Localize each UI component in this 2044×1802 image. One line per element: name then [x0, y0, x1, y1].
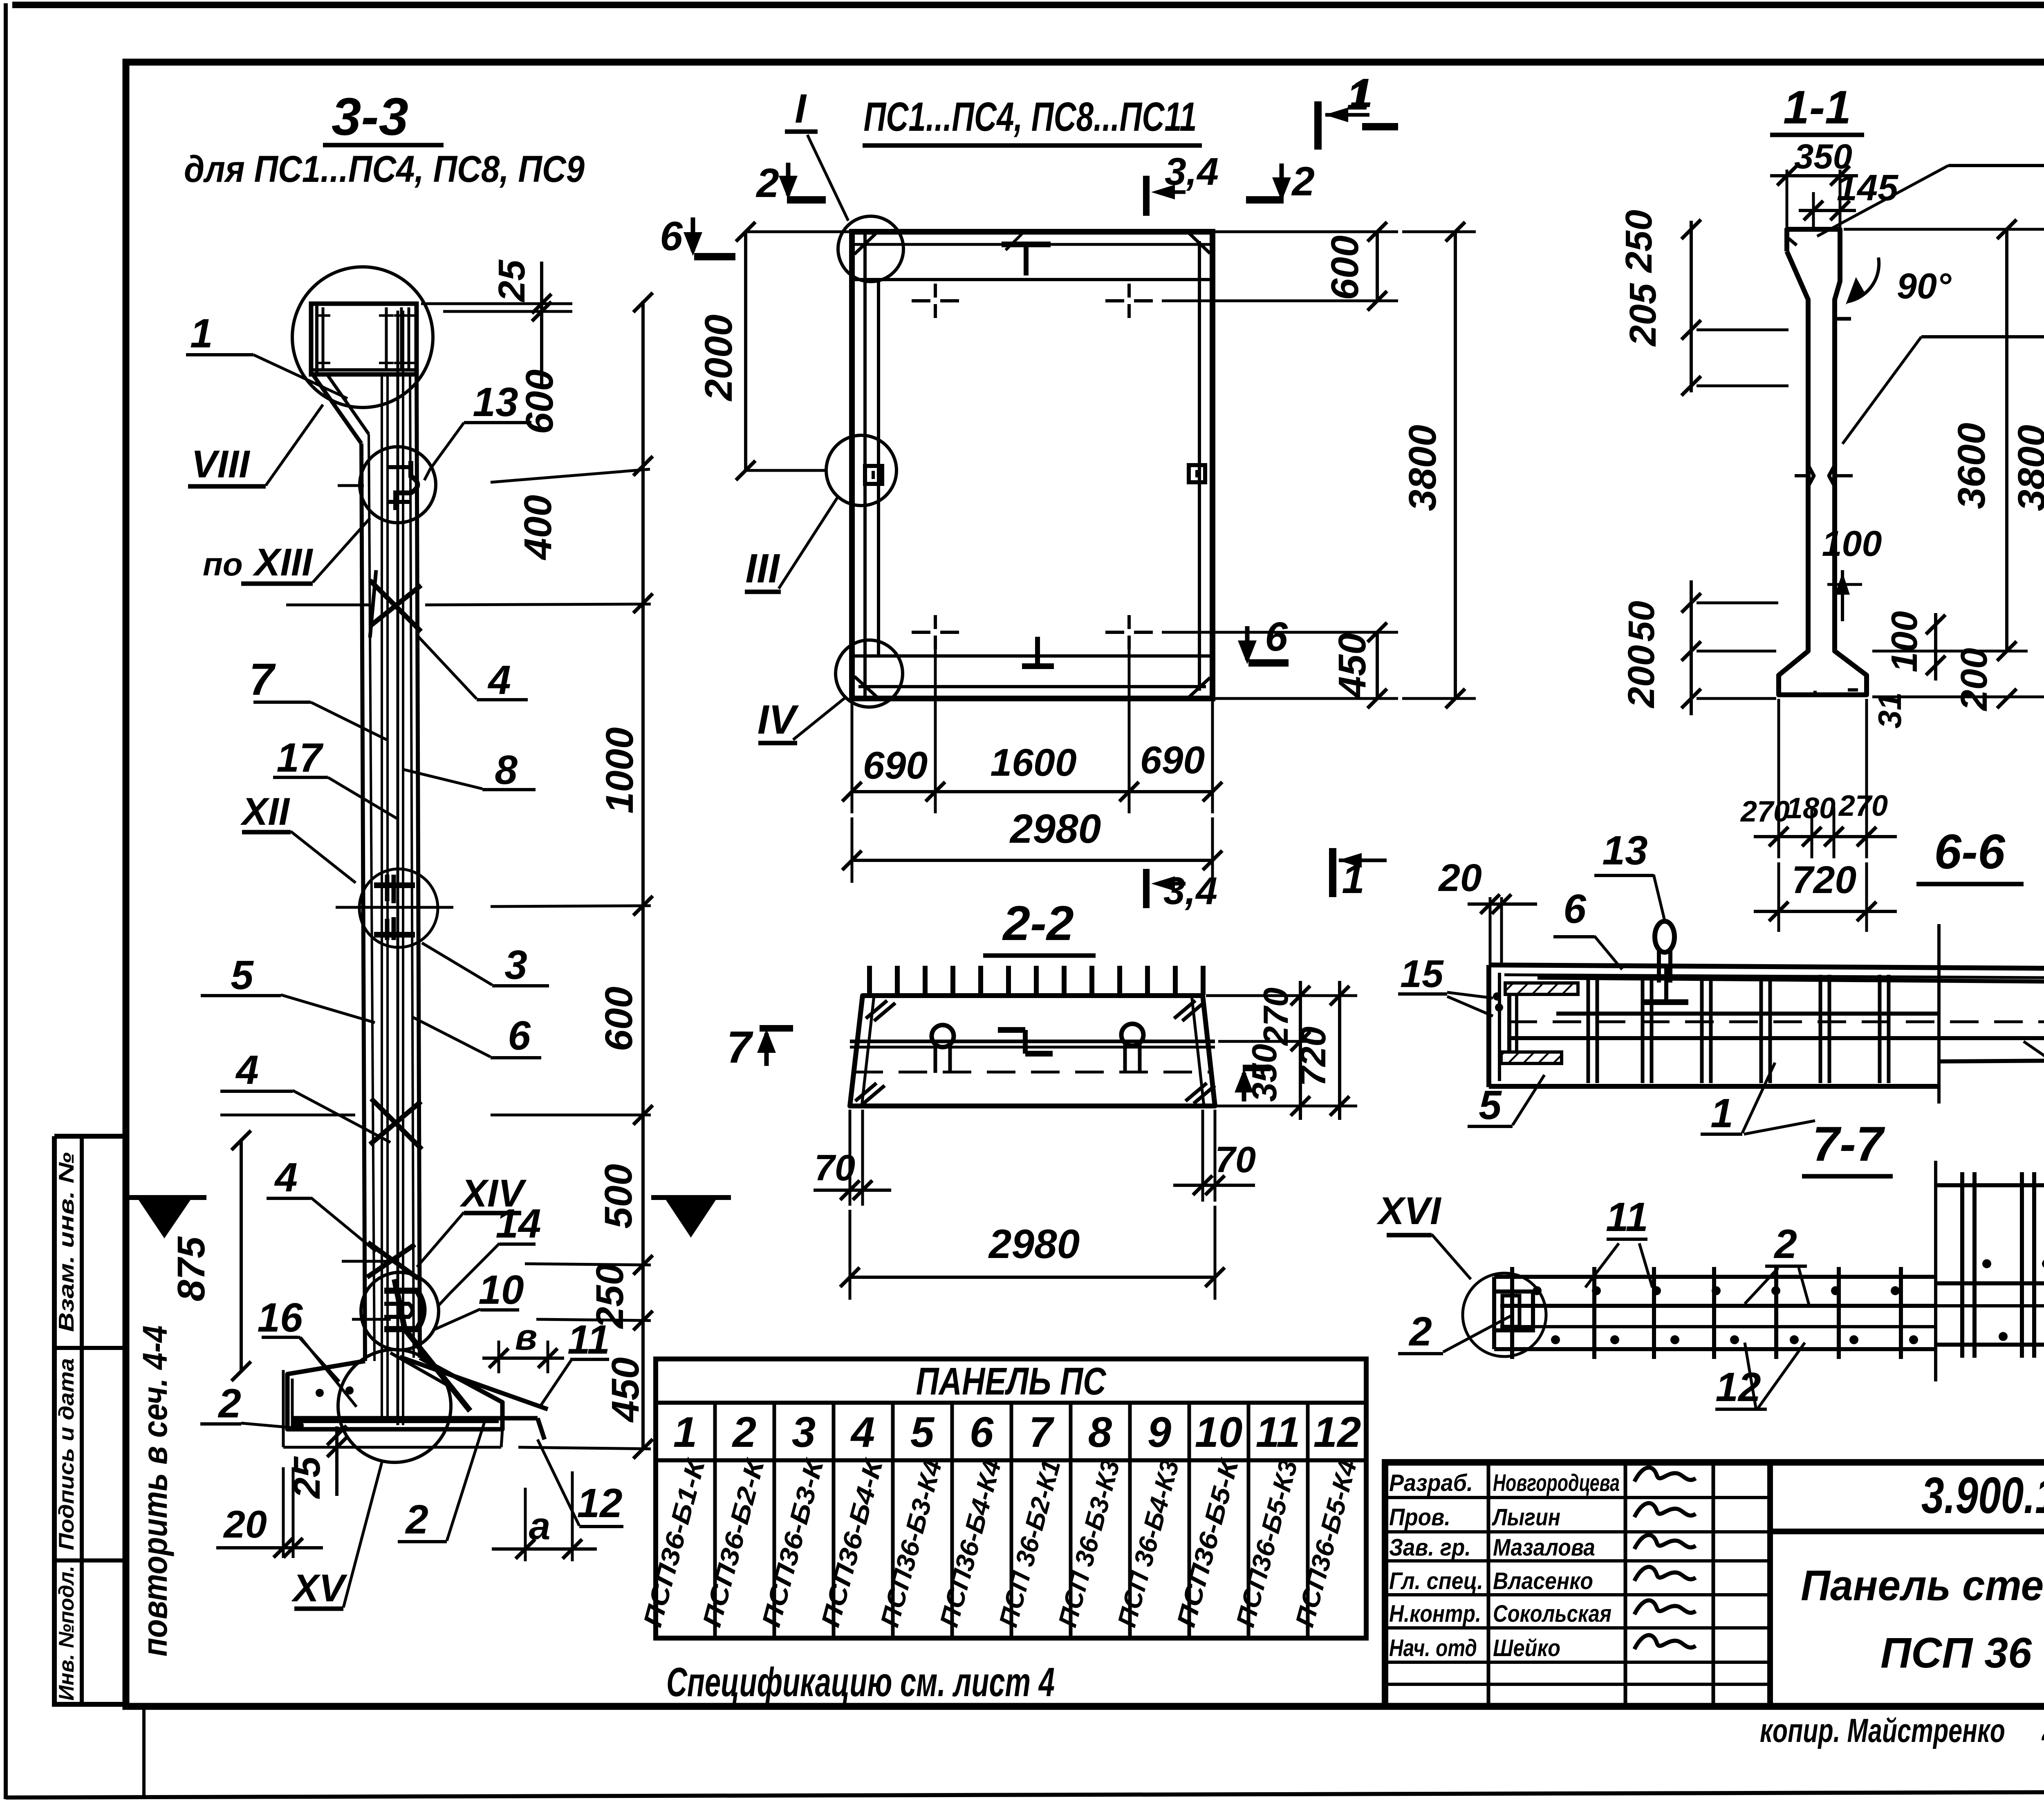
- svg-text:690: 690: [863, 744, 928, 787]
- panel top T mark: [1002, 244, 1051, 275]
- dim 3600 right: [1844, 219, 2044, 661]
- panel dim 2980: [842, 806, 1222, 883]
- label v dim near foot: [482, 1317, 564, 1373]
- section 2-2 teeth: [870, 966, 1203, 995]
- svg-text:6: 6: [660, 213, 683, 259]
- svg-text:12: 12: [577, 1480, 622, 1526]
- svg-text:350: 350: [1245, 1044, 1284, 1102]
- svg-text:ПАНЕЛЬ ПС: ПАНЕЛЬ ПС: [916, 1360, 1107, 1403]
- level extension lines across 3-3: [220, 304, 651, 1449]
- svg-text:8: 8: [1088, 1408, 1112, 1456]
- svg-text:10: 10: [1195, 1408, 1243, 1456]
- svg-text:ПС1...ПС4, ПС8...ПС11: ПС1...ПС4, ПС8...ПС11: [864, 94, 1197, 140]
- detail circle VIII at top: [292, 267, 433, 407]
- svg-text:15: 15: [1400, 952, 1444, 996]
- svg-text:XII: XII: [240, 790, 291, 833]
- svg-text:Спецификацию см. лист 4: Спецификацию см. лист 4: [666, 1659, 1055, 1705]
- svg-text:205: 205: [1622, 282, 1664, 347]
- svg-text:Сокольская: Сокольская: [1493, 1601, 1611, 1627]
- detail circle IV: [793, 640, 903, 740]
- label 1 with leader: [186, 311, 347, 398]
- svg-text:2000: 2000: [697, 314, 740, 401]
- dim 400: [516, 495, 560, 561]
- svg-text:3: 3: [504, 942, 527, 988]
- label 14 with leader: [438, 1201, 541, 1306]
- panel corner chamfers: [854, 232, 1210, 697]
- svg-text:31: 31: [1871, 692, 1908, 729]
- U-shaped bar item 14: [384, 1291, 424, 1329]
- section 1-1 profile: [1779, 229, 1867, 697]
- dims 50 200 left bottom: [1620, 580, 1778, 715]
- svg-text:для ПС1...ПС4, ПС8, ПС9: для ПС1...ПС4, ПС8, ПС9: [184, 148, 585, 190]
- svg-text:2: 2: [405, 1497, 428, 1542]
- svg-text:20: 20: [1438, 856, 1482, 900]
- svg-text:7: 7: [249, 654, 276, 705]
- svg-text:XVI: XVI: [1376, 1189, 1442, 1233]
- label 11 foot with leader: [540, 1317, 610, 1406]
- section 6-6 left end block: [1489, 965, 1578, 1087]
- svg-text:270: 270: [1740, 795, 1790, 828]
- svg-text:50: 50: [1621, 601, 1662, 642]
- section 7-7 left strip rungs and dots: [1512, 1267, 1918, 1359]
- label 2 far-left of 7-7: [1398, 1309, 1511, 1354]
- rotated note povtorit v sech 4-4: [136, 1325, 174, 1656]
- svg-text:Шейко: Шейко: [1493, 1635, 1560, 1661]
- section 7-7 title: [1802, 1117, 1893, 1176]
- svg-text:2: 2: [217, 1381, 241, 1426]
- svg-text:7: 7: [1029, 1408, 1055, 1456]
- svg-text:Гл. спец.: Гл. спец.: [1389, 1568, 1483, 1594]
- column body outline: [313, 374, 420, 1361]
- svg-text:24399-01: 24399-01: [2041, 1708, 2044, 1748]
- section 2-2 corner hatches: [855, 1001, 1215, 1104]
- section 2-2 title: [983, 896, 1096, 956]
- section flag 3,4 bottom: [1146, 869, 1217, 913]
- brace cross X mid: [370, 1099, 422, 1149]
- label XV: [291, 1462, 382, 1610]
- detail circle I: [807, 135, 903, 282]
- svg-text:5: 5: [231, 952, 254, 998]
- svg-text:400: 400: [516, 495, 560, 561]
- note mesto markirovki: [1817, 124, 2044, 236]
- label po XIII: [203, 518, 370, 584]
- svg-text:13: 13: [1602, 828, 1647, 873]
- svg-text:I: I: [795, 86, 807, 132]
- svg-text:600: 600: [1323, 235, 1367, 300]
- label 10 with leader: [433, 1267, 524, 1330]
- label VIII: [188, 405, 323, 486]
- label 5 bottom-left of 6-6: [1468, 1075, 1544, 1128]
- section 2-2 centre Z mark: [998, 1030, 1053, 1054]
- svg-text:Власенко: Власенко: [1493, 1568, 1593, 1594]
- svg-text:14: 14: [495, 1201, 541, 1247]
- svg-text:Инв. №подл.: Инв. №подл.: [55, 1566, 78, 1701]
- section flag 6 left: [660, 213, 735, 259]
- svg-text:III: III: [745, 546, 780, 591]
- table column numbers: [673, 1408, 1361, 1456]
- label 4 foot with leader: [267, 1155, 376, 1251]
- panel dim 450 right: [1162, 622, 1398, 708]
- detail circle III: [779, 435, 896, 589]
- panel dims 690 1600 690: [842, 638, 1222, 813]
- label 6 top of 6-6: [1553, 886, 1622, 969]
- svg-text:17: 17: [276, 735, 324, 781]
- dim 200 right rotated: [1953, 648, 2017, 712]
- dim 70 right bottom 2-2: [1173, 1110, 1256, 1202]
- svg-text:Лыгин: Лыгин: [1492, 1504, 1560, 1531]
- title panel stenovaya PSP36: [1801, 1562, 2044, 1677]
- svg-text:в: в: [515, 1317, 537, 1358]
- section flag 3,4 top: [1146, 150, 1219, 216]
- svg-text:1600: 1600: [990, 741, 1076, 784]
- section 6-6 cut line: [1937, 924, 1941, 1104]
- rotated label Inv no podl: [55, 1566, 78, 1701]
- dim 1000: [598, 727, 641, 813]
- dim 20 of 6-6: [1438, 856, 1537, 965]
- svg-text:4: 4: [850, 1408, 875, 1456]
- svg-text:7-7: 7-7: [1812, 1117, 1885, 1171]
- svg-text:11: 11: [567, 1317, 610, 1363]
- panel bottom mark: [1022, 637, 1054, 666]
- section 7-7 cut line: [1934, 1161, 1937, 1381]
- section 7-7 right cage: [1936, 1172, 2044, 1358]
- svg-text:2: 2: [1291, 159, 1315, 204]
- svg-text:500: 500: [597, 1164, 640, 1229]
- svg-text:IV: IV: [758, 697, 799, 743]
- section 6-6 lifting loop 13: [1655, 921, 1674, 983]
- title block signatures: [1634, 1468, 1696, 1649]
- section flag 1 far top-left: [1347, 73, 1398, 127]
- svg-text:12: 12: [1313, 1408, 1361, 1456]
- panel dim 600 right: [1162, 222, 1398, 311]
- panel outline: [852, 232, 1213, 698]
- panel side hook left: [865, 466, 882, 484]
- table header text: [916, 1360, 1107, 1403]
- label 7 with leader: [249, 654, 387, 740]
- svg-text:145: 145: [1837, 168, 1899, 208]
- svg-text:XIII: XIII: [252, 541, 314, 584]
- svg-text:5: 5: [1479, 1082, 1502, 1128]
- title block frame: [1385, 1462, 2044, 1706]
- svg-text:Разраб.: Разраб.: [1389, 1470, 1473, 1496]
- dim 70 left bottom 2-2: [814, 1110, 891, 1206]
- label 31: [1871, 692, 1908, 729]
- label 12 with leader: [538, 1439, 623, 1527]
- dims 270 350 right of 2-2: [1206, 981, 1357, 1120]
- label 4 top with leader: [416, 634, 528, 703]
- angle 90 with arc: [1846, 257, 1952, 306]
- svg-text:Зав. гр.: Зав. гр.: [1389, 1534, 1471, 1561]
- sloped bar item 11: [390, 1353, 548, 1409]
- svg-text:3,4: 3,4: [1163, 869, 1217, 913]
- section 2-2 body outline: [850, 996, 1215, 1106]
- dim 100 right rotated: [1884, 611, 1945, 681]
- label XII: [240, 790, 356, 883]
- svg-text:1: 1: [190, 311, 213, 356]
- panel dim 2000 left: [697, 222, 852, 480]
- label 6 with leader: [412, 1013, 541, 1059]
- svg-text:200: 200: [1953, 648, 1995, 712]
- section flag 2 top-right: [1246, 159, 1315, 204]
- svg-text:XV: XV: [291, 1567, 347, 1610]
- svg-text:3800: 3800: [1401, 425, 1444, 511]
- dim 25 at foot: [286, 1426, 347, 1499]
- label III: [745, 546, 781, 592]
- dim 450: [604, 1357, 647, 1423]
- label 11 left of 7-7: [1585, 1194, 1652, 1287]
- embedded plate at column top: [311, 304, 417, 374]
- svg-text:9: 9: [1148, 1408, 1171, 1456]
- svg-text:10: 10: [478, 1267, 524, 1313]
- dim 600 top: [518, 369, 561, 434]
- svg-text:3-3: 3-3: [332, 87, 408, 146]
- label 16 with leaders: [257, 1295, 356, 1407]
- label 1 of 6-6: [1701, 1063, 1815, 1136]
- svg-text:6-6: 6-6: [1934, 824, 2006, 879]
- note specifikatsiyu sm list 4: [666, 1659, 1055, 1705]
- label 13 of 6-6: [1594, 828, 1665, 920]
- svg-text:11: 11: [1256, 1408, 1300, 1456]
- section 7-7 left strip: [1494, 1277, 1936, 1349]
- panel dim 3800 right: [1401, 222, 1476, 708]
- fold mark line below frame: [142, 1708, 146, 1798]
- section 6-6 title: [1916, 824, 2024, 884]
- foot bottom rebar bar 2/12: [291, 1386, 545, 1439]
- svg-text:ПСП 36: ПСП 36: [1880, 1629, 2032, 1677]
- svg-text:Взам. инв. №: Взам. инв. №: [55, 1152, 78, 1332]
- bent bar item 10: [394, 1279, 470, 1411]
- dim 100 upper: [1822, 523, 1882, 621]
- svg-text:копир. Майстренко: копир. Майстренко: [1760, 1712, 2005, 1749]
- section 6-6 chords: [1489, 965, 2044, 1086]
- rotated label Podpis i data: [55, 1358, 78, 1550]
- svg-text:2: 2: [1408, 1309, 1432, 1354]
- svg-text:270: 270: [1257, 987, 1295, 1046]
- svg-text:180: 180: [1786, 792, 1836, 825]
- dim 25 top: [491, 259, 551, 388]
- svg-text:Подпись и дата: Подпись и дата: [55, 1358, 78, 1550]
- svg-text:11: 11: [1606, 1194, 1648, 1240]
- level mark triangle left: [123, 1198, 206, 1238]
- document number: [1921, 1467, 2044, 1524]
- svg-text:8: 8: [495, 747, 518, 793]
- svg-text:4: 4: [487, 657, 511, 703]
- svg-text:по: по: [203, 546, 243, 582]
- section 7-7 left end detail circle: [1463, 1273, 1546, 1357]
- svg-text:70: 70: [1215, 1139, 1256, 1180]
- section flag 6 bottom-right: [1238, 614, 1289, 664]
- dim 20 at foot: [216, 1467, 323, 1558]
- svg-text:100: 100: [1822, 523, 1882, 564]
- svg-text:100: 100: [1884, 611, 1925, 672]
- table PANEL PS frame: [656, 1359, 1366, 1638]
- svg-text:VIII: VIII: [191, 443, 251, 486]
- brace cross X at 400 level: [370, 570, 421, 638]
- svg-text:2-2: 2-2: [1002, 896, 1074, 951]
- svg-text:1000: 1000: [598, 727, 641, 813]
- label 3 with leader: [422, 942, 549, 988]
- dim 720 bottom: [1754, 858, 1897, 932]
- detail circle XIII hook: [360, 447, 436, 523]
- dim 3800 right: [1872, 219, 2044, 708]
- view 3-3 title: [184, 87, 585, 190]
- rotated label Vzam inv no: [55, 1152, 78, 1332]
- label 2 bottom with leader: [398, 1422, 484, 1542]
- dim 250: [588, 1264, 632, 1330]
- detail circle XV foot: [338, 1350, 451, 1462]
- svg-text:3.900.1-10.2-7 - 03.00: 3.900.1-10.2-7 - 03.00: [1921, 1467, 2044, 1524]
- svg-text:Нач. отд: Нач. отд: [1389, 1635, 1477, 1661]
- section 2-2 flag 7 right: [1235, 1068, 1271, 1101]
- brace cross X at foot: [367, 1242, 418, 1278]
- svg-text:720: 720: [1293, 1027, 1333, 1087]
- svg-text:1: 1: [1347, 73, 1369, 119]
- svg-text:1: 1: [673, 1408, 697, 1456]
- dim 600 mid: [597, 987, 641, 1052]
- svg-text:Панель стеновая: Панель стеновая: [1801, 1562, 2044, 1609]
- svg-text:5: 5: [910, 1408, 935, 1456]
- svg-text:2: 2: [732, 1408, 756, 1456]
- label I: [785, 86, 818, 132]
- svg-text:16: 16: [257, 1295, 303, 1341]
- panel side hook right: [1189, 465, 1205, 482]
- label 8 with leader: [402, 747, 536, 793]
- panel view title: [863, 94, 1202, 146]
- section 2-2 lifting loops: [932, 1024, 1143, 1073]
- svg-text:6: 6: [508, 1013, 531, 1059]
- svg-text:2: 2: [1773, 1221, 1797, 1267]
- svg-text:Мазалова: Мазалова: [1493, 1534, 1595, 1561]
- section 6-6 ladder rungs: [1556, 965, 1939, 1083]
- svg-text:600: 600: [518, 369, 561, 434]
- svg-text:3: 3: [792, 1408, 816, 1456]
- svg-text:20: 20: [223, 1503, 267, 1546]
- svg-text:Пров.: Пров.: [1389, 1504, 1450, 1531]
- dim 2980 under 2-2: [840, 1206, 1225, 1300]
- detail circle XII lap splice: [359, 869, 438, 947]
- table rotated panel marks: [638, 1455, 1363, 1630]
- svg-text:70: 70: [814, 1148, 855, 1189]
- section flag 1 top-right: [1318, 70, 1373, 150]
- dim 875 line: [170, 1130, 251, 1381]
- svg-text:6: 6: [1265, 614, 1288, 660]
- svg-text:13: 13: [473, 379, 518, 425]
- svg-text:600: 600: [597, 987, 641, 1052]
- title block row labels: [1389, 1470, 1620, 1661]
- svg-text:270: 270: [1838, 790, 1888, 822]
- label 17 with leader: [273, 735, 399, 819]
- svg-text:7: 7: [726, 1022, 753, 1072]
- svg-text:250: 250: [1618, 210, 1660, 273]
- svg-text:200: 200: [1620, 645, 1662, 709]
- svg-text:1-1: 1-1: [1783, 81, 1851, 134]
- bottom dims 270 180 270: [1740, 699, 1897, 858]
- section flag 1 bottom-right: [1333, 848, 1387, 902]
- svg-text:450: 450: [1331, 633, 1374, 699]
- svg-text:повторить в сеч. 4-4: повторить в сеч. 4-4: [136, 1325, 174, 1656]
- section 1-1 title: [1770, 81, 1864, 135]
- svg-text:Новгородцева: Новгородцева: [1493, 1470, 1620, 1496]
- svg-text:450: 450: [604, 1357, 647, 1423]
- label 5 with leader: [201, 952, 375, 1023]
- svg-text:2980: 2980: [1009, 806, 1101, 852]
- label 2 mid of 7-7: [1745, 1221, 1809, 1305]
- svg-text:3800: 3800: [2010, 425, 2044, 511]
- hook item 13 in circle: [386, 461, 418, 510]
- label 13 with leader: [424, 379, 531, 480]
- section flag 2 top-left: [755, 160, 826, 206]
- dim 720 right of 2-2: [1293, 981, 1349, 1120]
- svg-text:а: а: [529, 1504, 551, 1548]
- label 15 left of 6-6: [1398, 952, 1493, 1016]
- dim 500: [597, 1164, 640, 1229]
- svg-text:4: 4: [235, 1047, 259, 1093]
- dim 145: [1799, 168, 1899, 227]
- note gran obrashchennaya vnutr yomkosti: [1842, 294, 2044, 444]
- copyist line: [1760, 1707, 2044, 1749]
- detail circle XIV U-bar: [361, 1272, 439, 1350]
- dim chain line 3-3 right: [633, 293, 653, 1459]
- svg-text:720: 720: [1792, 858, 1857, 902]
- svg-text:6: 6: [1563, 886, 1587, 932]
- section 2-2 flag 7 left: [726, 1022, 793, 1072]
- label XVI: [1376, 1189, 1471, 1279]
- svg-text:Н.контр.: Н.контр.: [1389, 1601, 1481, 1627]
- svg-text:4: 4: [274, 1155, 298, 1200]
- svg-text:25: 25: [491, 259, 533, 302]
- svg-text:6: 6: [970, 1408, 994, 1456]
- svg-text:875: 875: [170, 1236, 213, 1302]
- panel centre crosses: [912, 284, 1153, 649]
- svg-text:3600: 3600: [1950, 423, 1993, 509]
- svg-text:2: 2: [755, 160, 779, 206]
- label 12 of 7-7: [1715, 1343, 1805, 1410]
- column foot outline: [283, 1358, 502, 1447]
- svg-text:2980: 2980: [988, 1221, 1080, 1267]
- label 2 left of foot: [200, 1381, 296, 1428]
- label 4 mid with leader: [220, 1047, 390, 1142]
- svg-text:90°: 90°: [1897, 266, 1952, 306]
- lap splice marks in circle XII: [374, 875, 415, 940]
- svg-text:690: 690: [1140, 739, 1205, 782]
- column rebar lines: [382, 311, 403, 1425]
- left margin column cells: [54, 1136, 126, 1707]
- dim 350 top: [1770, 137, 1858, 227]
- level mark triangle right: [651, 1198, 731, 1238]
- label XIV: [417, 1172, 527, 1267]
- dim a at foot: [492, 1471, 597, 1561]
- svg-text:1: 1: [1710, 1090, 1733, 1136]
- label 5 right of 6-6: [2024, 1041, 2044, 1087]
- left dim chain 250 205: [1618, 210, 1788, 396]
- label IV: [758, 697, 799, 743]
